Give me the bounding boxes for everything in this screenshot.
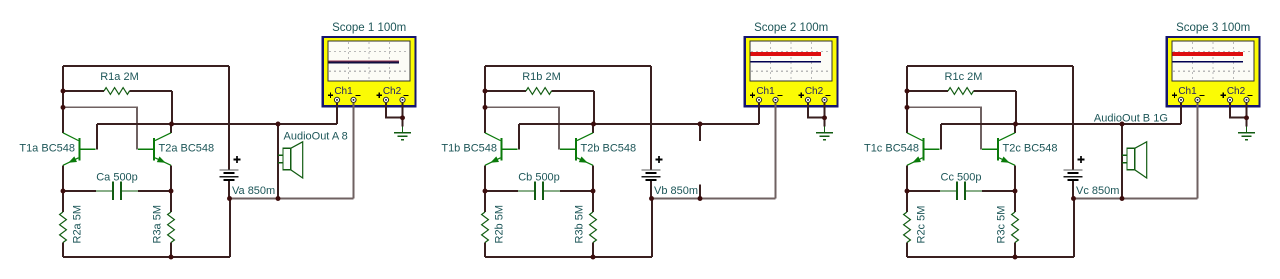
resistor R2a 5M	[60, 212, 67, 243]
svg-text:AudioOut B 1G: AudioOut B 1G	[1094, 112, 1168, 124]
svg-text:Ch1: Ch1	[756, 86, 775, 97]
resistor R3b 5M	[590, 212, 597, 243]
Scope 1 terminal Ch2-	[400, 97, 405, 102]
junction node 2	[483, 105, 488, 110]
wire: R1c right segment	[974, 90, 1017, 92]
Scope 2 terminal Ch1-	[773, 97, 778, 102]
wire: Ch1+ vertical	[336, 103, 338, 124]
svg-text:T1c BC548: T1c BC548	[864, 143, 919, 155]
wire: top rail to battery Vb	[485, 65, 651, 67]
wire: T1a base vertical	[96, 124, 98, 149]
resistor R1c 2M	[948, 88, 974, 95]
wire: ground node drop	[402, 118, 404, 127]
junction node 8	[1244, 115, 1249, 120]
junction node 3	[169, 122, 174, 127]
Scope 2 terminal Ch1+	[756, 97, 761, 102]
svg-text:R3a 5M: R3a 5M	[152, 205, 164, 244]
wire: T1b base vertical	[518, 124, 520, 149]
transistor T1b	[485, 133, 518, 166]
oscilloscope Scope 2 screen	[750, 41, 832, 81]
svg-text:R2c 5M: R2c 5M	[916, 206, 928, 244]
junction node 8	[400, 115, 405, 120]
transistor T1c	[907, 133, 940, 166]
ground scope 2 ground	[816, 127, 833, 140]
battery Va plus sign	[234, 156, 241, 163]
wire: cross-couple to T2c base (gray)	[907, 107, 981, 149]
wire: left vertical (collector T1a net)	[62, 66, 64, 133]
wire: output node horizontal (base T1c / collector T2c to scope)	[941, 123, 1181, 125]
svg-text:R3b 5M: R3b 5M	[574, 205, 586, 244]
wire: Ch2- to ground node	[824, 103, 826, 118]
wire: R1a right drop to base node	[171, 91, 173, 124]
junction node 1	[905, 89, 910, 94]
wire: left vertical (collector T1c net)	[906, 66, 908, 133]
Scope 1 Ch2 label	[377, 86, 409, 98]
wire: T1b emitter vertical	[484, 165, 486, 191]
wire: T2c collector vertical	[1014, 124, 1016, 133]
svg-text:R1b 2M: R1b 2M	[522, 71, 561, 83]
wire: R1c left segment	[907, 90, 948, 92]
battery Vb plates	[642, 170, 661, 180]
wire: speaker vertical branch	[1121, 124, 1123, 199]
svg-text:R1a 2M: R1a 2M	[100, 71, 139, 83]
capacitor Ca 500p	[96, 182, 138, 201]
Scope 2 trace Ch2 (navy, center)	[751, 61, 821, 63]
svg-text:Va 850m: Va 850m	[232, 185, 275, 197]
svg-text:Ch2: Ch2	[383, 86, 402, 97]
Scope 1 trace Ch2 (navy, center)	[329, 61, 399, 63]
wire: open stub at output node	[699, 124, 701, 141]
wire: R3b top lead	[592, 191, 594, 212]
Scope 3 trace Ch1 (red bar near top)	[1173, 52, 1243, 56]
junction node 4	[483, 189, 488, 194]
junction node 1	[61, 89, 66, 94]
wire: open stub at ground rail	[699, 185, 701, 199]
wire: Ch1+ vertical	[758, 103, 760, 124]
Scope 2 terminal Ch2-	[822, 97, 827, 102]
wire: R1a left segment	[63, 90, 104, 92]
oscilloscope Scope 1 screen	[328, 41, 410, 81]
junction node 7	[1071, 196, 1076, 201]
svg-text:T1b BC548: T1b BC548	[441, 143, 497, 155]
transistor T2c	[982, 133, 1015, 166]
wire: R3a top lead	[170, 191, 172, 212]
wire: bottom rail	[63, 256, 230, 258]
junction node 10	[276, 196, 281, 201]
Scope 3 trace Ch2 (navy, center)	[1173, 61, 1243, 63]
wire: Ch2- to ground node	[402, 103, 404, 118]
svg-text:Scope 3 100m: Scope 3 100m	[1176, 22, 1250, 34]
wire: capacitor Cc left lead wire	[907, 190, 940, 192]
wire: R2c top lead	[906, 191, 908, 212]
Scope 1 screen gridlines	[329, 42, 409, 80]
wire: top rail to battery Va	[63, 65, 229, 67]
wire: T1c emitter vertical	[906, 165, 908, 191]
wire: bottom rail	[485, 256, 652, 258]
resistor R1b 2M	[526, 88, 552, 95]
resistor R2c 5M	[904, 212, 911, 243]
ground scope 3 ground	[1238, 127, 1255, 140]
svg-text:Cc 500p: Cc 500p	[941, 172, 982, 184]
wire: R2b top lead	[484, 191, 486, 212]
junction node 1	[483, 89, 488, 94]
wire: battery Vc top vertical	[1072, 66, 1074, 170]
wire: battery Va bottom lead	[228, 181, 230, 198]
wire: Ch1+ vertical	[1180, 103, 1182, 124]
Scope 3 terminal Ch2-	[1244, 97, 1249, 102]
Scope 1 terminal Ch1-	[351, 97, 356, 102]
wire: ground rail battery to Ch1- (gray)	[652, 198, 776, 200]
wire: R2a bottom lead	[62, 243, 64, 258]
svg-text:T2a BC548: T2a BC548	[159, 143, 215, 155]
wire: battery Vc bottom lead	[1072, 181, 1074, 198]
svg-text:Ch1: Ch1	[1178, 86, 1197, 97]
wire: cross-couple to T2a base (gray)	[63, 107, 137, 149]
speaker AudioOut c	[1122, 142, 1147, 178]
wire: bottom rail riser to battery minus	[651, 199, 653, 258]
wire: capacitor Cb right lead wire	[560, 190, 593, 192]
wire: R2b bottom lead	[484, 243, 486, 258]
resistor R2b 5M	[482, 212, 489, 243]
svg-text:Scope 1 100m: Scope 1 100m	[332, 22, 406, 34]
wire: Ch2+ down-right to ground node	[1230, 103, 1247, 118]
battery Vc plates	[1064, 170, 1083, 180]
svg-text:AudioOut A 8: AudioOut A 8	[284, 131, 348, 143]
svg-text:T1a BC548: T1a BC548	[19, 143, 75, 155]
junction node 6	[169, 255, 174, 260]
wire: Ch2+ down-right to ground node	[386, 103, 403, 118]
junction node 3	[591, 122, 596, 127]
wire: ground rail battery to Ch1- (gray)	[1074, 198, 1198, 200]
Scope 2 terminal Ch2+	[805, 97, 810, 102]
wire: bottom rail riser to battery minus	[229, 199, 231, 258]
speaker AudioOut a	[278, 142, 303, 178]
junction node 9	[276, 122, 281, 127]
Scope 3 terminal Ch1+	[1178, 97, 1183, 102]
wire: bottom rail	[907, 256, 1074, 258]
junction node 6	[591, 255, 596, 260]
wire: output node horizontal (base T1b / collector T2b to scope)	[519, 123, 759, 125]
wire: Ch1- vertical (gray)	[775, 103, 777, 199]
wire: R3b bottom lead	[592, 243, 594, 258]
svg-text:T2c BC548: T2c BC548	[1003, 143, 1058, 155]
wire: output node horizontal (base T1a / collector T2a to scope)	[97, 123, 337, 125]
wire: Ch2- to ground node	[1246, 103, 1248, 118]
Scope 1 trace Ch1 (red, center)	[329, 60, 399, 62]
oscilloscope Scope 3 body	[1167, 37, 1260, 106]
Scope 2 screen gridlines	[751, 42, 831, 80]
wire: T1c base vertical	[940, 124, 942, 149]
junction node 9	[698, 122, 703, 127]
junction node 5	[1013, 189, 1018, 194]
oscilloscope Scope 2 body	[745, 37, 838, 106]
wire: ground node drop	[824, 118, 826, 127]
wire: R1b right segment	[552, 90, 595, 92]
svg-text:Ch2: Ch2	[1227, 86, 1246, 97]
junction node 7	[649, 196, 654, 201]
svg-text:R1c 2M: R1c 2M	[945, 71, 983, 83]
resistor R3a 5M	[168, 212, 175, 243]
svg-text:T2b BC548: T2b BC548	[581, 143, 637, 155]
svg-text:R2a 5M: R2a 5M	[72, 205, 84, 244]
wire: capacitor Ca left lead wire	[63, 190, 96, 192]
junction node 6	[1013, 255, 1018, 260]
svg-text:R3c 5M: R3c 5M	[996, 206, 1008, 244]
svg-text:Vb 850m: Vb 850m	[654, 185, 698, 197]
Scope 2 Ch2 label	[799, 86, 831, 98]
wire: battery Va top vertical	[228, 66, 230, 170]
wire: T2b collector vertical	[592, 124, 594, 133]
resistor R3c 5M	[1012, 212, 1019, 243]
junction node 5	[169, 189, 174, 194]
svg-text:Vc 850m: Vc 850m	[1076, 185, 1119, 197]
transistor T1a	[63, 133, 96, 166]
wire: speaker vertical branch	[277, 124, 279, 199]
Scope 2 Ch1 label	[750, 86, 783, 98]
battery Va plates	[220, 170, 239, 180]
transistor T2b	[560, 133, 593, 166]
Scope 3 terminal Ch2+	[1227, 97, 1232, 102]
wire: ground rail battery to Ch1- (gray)	[230, 198, 354, 200]
junction node 9	[1120, 122, 1125, 127]
junction node 10	[698, 196, 703, 201]
wire: capacitor Cc right lead wire	[982, 190, 1015, 192]
Scope 3 terminal Ch1-	[1195, 97, 1200, 102]
ground scope 1 ground	[394, 127, 411, 140]
junction node 8	[822, 115, 827, 120]
battery Vb plus sign	[656, 156, 663, 163]
capacitor Cb 500p	[518, 182, 560, 201]
Scope 2 trace Ch1 (red bar near top)	[751, 52, 821, 56]
wire: cross-couple to T2b base (gray)	[485, 107, 559, 149]
wire: T1a emitter vertical	[62, 165, 64, 191]
wire: T2b emitter vertical	[592, 165, 594, 191]
wire: top rail to battery Vc	[907, 65, 1073, 67]
wire: battery Vb bottom lead	[650, 181, 652, 198]
Scope 3 screen gridlines	[1173, 42, 1253, 80]
wire: ground node drop	[1246, 118, 1248, 127]
wire: R1a right segment	[130, 90, 173, 92]
wire: R3c top lead	[1014, 191, 1016, 212]
oscilloscope Scope 3 screen	[1172, 41, 1254, 81]
wire: T2c emitter vertical	[1014, 165, 1016, 191]
svg-text:R2b 5M: R2b 5M	[494, 205, 506, 244]
junction node 3	[1013, 122, 1018, 127]
svg-text:Ch2: Ch2	[805, 86, 824, 97]
oscilloscope Scope 1 body	[323, 37, 416, 106]
wire: R1b left segment	[485, 90, 526, 92]
wire: bottom rail riser to battery minus	[1073, 199, 1075, 258]
battery Vc plus sign	[1078, 156, 1085, 163]
wire: Ch1- vertical (gray)	[1197, 103, 1199, 199]
wire: Ch2+ down-right to ground node	[808, 103, 825, 118]
Scope 1 terminal Ch2+	[383, 97, 388, 102]
transistor T2a	[138, 133, 171, 166]
wire: battery Vb top vertical	[650, 66, 652, 170]
svg-text:Ca 500p: Ca 500p	[96, 172, 138, 184]
wire: T2a collector vertical	[170, 124, 172, 133]
junction node 4	[905, 189, 910, 194]
svg-text:Scope 2 100m: Scope 2 100m	[754, 22, 828, 34]
junction node 4	[61, 189, 66, 194]
junction node 5	[591, 189, 596, 194]
capacitor Cc 500p	[940, 182, 982, 201]
junction node 2	[905, 105, 910, 110]
junction node 7	[227, 196, 232, 201]
Scope 3 Ch1 label	[1172, 86, 1205, 98]
wire: R2a top lead	[62, 191, 64, 212]
wire: Ch1- vertical (gray)	[353, 103, 355, 199]
wire: capacitor Ca right lead wire	[138, 190, 171, 192]
wire: T2a emitter vertical	[170, 165, 172, 191]
Scope 3 Ch2 label	[1221, 86, 1253, 98]
wire: capacitor Cb left lead wire	[485, 190, 518, 192]
wire: R2c bottom lead	[906, 243, 908, 258]
wire: R1b right drop to base node	[593, 91, 595, 124]
wire: R3a bottom lead	[170, 243, 172, 258]
Scope 1 terminal Ch1+	[334, 97, 339, 102]
wire: R1c right drop to base node	[1015, 91, 1017, 124]
svg-text:Cb 500p: Cb 500p	[518, 172, 560, 184]
resistor R1a 2M	[104, 88, 130, 95]
wire: R3c bottom lead	[1014, 243, 1016, 258]
junction node 2	[61, 105, 66, 110]
wire: left vertical (collector T1b net)	[484, 66, 486, 133]
svg-text:Ch1: Ch1	[334, 86, 353, 97]
Scope 1 Ch1 label	[328, 86, 361, 98]
junction node 10	[1120, 196, 1125, 201]
